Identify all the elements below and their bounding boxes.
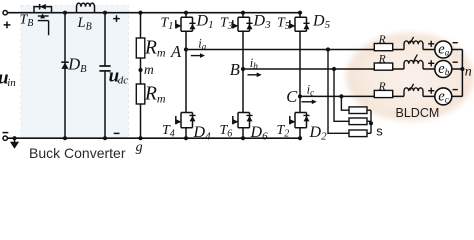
transistor T3 — [233, 17, 253, 31]
svg-text:n: n — [465, 64, 472, 79]
svg-text:B: B — [230, 60, 240, 79]
buck converter enclosure — [21, 6, 129, 138]
wire phase C — [300, 95, 462, 97]
wire leg A middle — [185, 31, 187, 112]
node s — [367, 110, 383, 138]
sense resistor (phase b) — [349, 118, 367, 125]
node A — [170, 42, 188, 61]
node m — [138, 58, 154, 84]
svg-text:C: C — [286, 87, 298, 106]
transistor T6 — [233, 113, 253, 128]
svg-text:A: A — [170, 42, 182, 61]
wire leg C upper — [298, 11, 302, 18]
label LB — [77, 15, 92, 33]
label BLDCM — [396, 106, 440, 120]
resistor Rm (lower) — [136, 84, 145, 140]
ground — [10, 136, 19, 149]
source u_in label — [0, 68, 16, 90]
label D3 — [253, 13, 272, 32]
wire leg B middle — [242, 31, 244, 112]
label DB — [67, 55, 87, 76]
label T4 — [162, 123, 175, 140]
transistor T5 — [290, 17, 310, 31]
wire leg C middle — [299, 31, 301, 112]
svg-text:BLDCM: BLDCM — [396, 106, 440, 120]
diode DB — [61, 11, 69, 141]
svg-text:Buck Converter: Buck Converter — [29, 145, 126, 160]
label T5 — [277, 16, 290, 33]
label T6 — [220, 123, 233, 140]
transistor T2 — [290, 113, 310, 128]
label udc polarity - — [114, 132, 120, 134]
svg-text:R: R — [378, 81, 386, 93]
wire leg A lower — [184, 128, 188, 140]
current arrow ic — [301, 83, 316, 105]
label Rm (upper) — [144, 38, 166, 60]
transistor T4 — [176, 113, 196, 128]
wire leg C lower — [298, 128, 302, 140]
label udc — [109, 66, 129, 87]
resistor R (phase c) — [374, 81, 458, 105]
label T1 — [161, 16, 174, 33]
svg-text:R: R — [378, 34, 386, 46]
label D1 — [196, 13, 214, 32]
label D6 — [250, 124, 269, 143]
wire leg B upper — [241, 11, 245, 18]
svg-text:g: g — [136, 140, 143, 155]
svg-text:in: in — [7, 77, 16, 89]
label T3 — [220, 16, 233, 33]
label D2 — [309, 124, 328, 143]
resistor Rm (upper) — [136, 11, 145, 58]
label Rm (lower) — [144, 84, 166, 106]
wire tap phase A — [326, 47, 349, 133]
input terminal + (top) — [3, 11, 10, 29]
wire leg A upper — [184, 11, 188, 18]
wire phase A — [186, 49, 462, 51]
wire tap phase B — [332, 67, 349, 121]
label TB — [20, 13, 34, 30]
transistor T1 — [176, 17, 196, 31]
sense resistor (phase a) — [349, 130, 367, 137]
BLDCM motor highlight ellipse — [346, 33, 474, 121]
wire tap phase C — [339, 94, 349, 110]
svg-text:R: R — [378, 54, 386, 66]
label udc polarity + — [113, 15, 120, 22]
node n — [460, 50, 472, 97]
node C — [286, 87, 302, 106]
current arrow ib — [248, 56, 262, 77]
wire phase B — [243, 68, 462, 70]
label D4 — [193, 124, 212, 143]
wire top rail — [5, 12, 300, 14]
transistor TB — [34, 4, 52, 35]
label D5 — [312, 13, 331, 32]
current arrow ia — [191, 37, 207, 58]
wire bottom rail — [5, 137, 300, 139]
svg-text:s: s — [376, 123, 383, 138]
input terminal - (bottom) — [3, 133, 9, 141]
label T2 — [277, 123, 290, 140]
svg-text:m: m — [144, 62, 154, 77]
wire leg B lower — [241, 128, 245, 140]
node g — [136, 140, 143, 155]
sense resistor (phase c) — [349, 107, 367, 114]
inductor LB — [77, 3, 95, 13]
svg-text:dc: dc — [118, 75, 129, 87]
capacitor udc — [99, 11, 110, 141]
resistor R (phase b) — [374, 54, 458, 78]
label Buck Converter — [29, 145, 126, 161]
resistor R (phase a) — [374, 34, 458, 58]
node B — [230, 60, 245, 79]
